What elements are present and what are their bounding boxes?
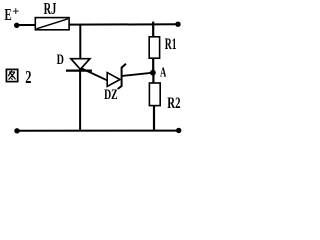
svg-text:R2: R2 xyxy=(167,95,180,112)
node terminal dot (bottom-left) xyxy=(14,128,19,133)
wire bottom rail xyxy=(17,130,179,132)
wire top rail right segment xyxy=(69,23,178,25)
resistor RJ xyxy=(35,18,69,30)
resistor R2 xyxy=(149,83,160,106)
label 图 (figure) drawn as glyph xyxy=(6,69,17,81)
svg-text:2: 2 xyxy=(25,67,31,87)
wire vertical from top rail down to diode D xyxy=(79,24,81,60)
wire right vertical: top rail junction to R1 xyxy=(152,22,154,38)
wire top rail left segment xyxy=(17,24,36,26)
wire diagonal from DZ cathode to node A xyxy=(122,73,153,76)
diode D (triangle + cathode bar) xyxy=(66,59,92,71)
svg-text:RJ: RJ xyxy=(44,0,57,18)
wire diagonal from D cathode to DZ anode xyxy=(81,68,107,80)
zener diode DZ (triangle right + bar with hooks) xyxy=(107,64,126,89)
wire R2 bottom to bottom rail xyxy=(153,106,155,132)
wire R1 bottom to node A xyxy=(152,58,154,73)
wire vertical from diode D down to bottom rail xyxy=(79,71,81,131)
node A junction dot xyxy=(150,70,156,76)
node terminal dot (top-right) xyxy=(175,22,180,27)
svg-text:R1: R1 xyxy=(165,36,177,53)
svg-text:E: E xyxy=(5,5,12,24)
svg-text:DZ: DZ xyxy=(104,87,118,103)
node terminal dot (bottom-right) xyxy=(176,128,181,133)
resistor R1 xyxy=(149,37,159,58)
svg-text:D: D xyxy=(57,52,64,68)
svg-text:+: + xyxy=(12,5,19,19)
node E+ terminal dot (top-left) xyxy=(14,23,19,28)
svg-text:A: A xyxy=(160,65,166,80)
wire node A to R2 xyxy=(152,73,154,84)
